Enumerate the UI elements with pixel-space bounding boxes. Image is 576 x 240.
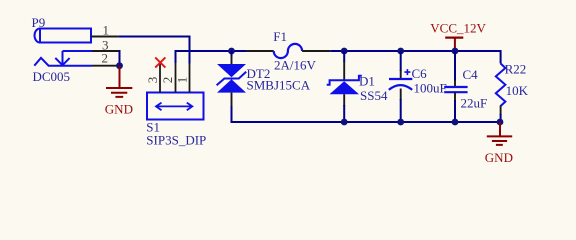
power port VCC_12V stem — [454, 38, 456, 49]
svg-text:100uF: 100uF — [414, 81, 447, 96]
capacitor C4 plate 1 — [444, 86, 467, 88]
fuse F1 left pin — [246, 50, 274, 52]
fuse F1 glyph — [274, 44, 302, 58]
svg-text:22uF: 22uF — [461, 96, 488, 111]
wire DT2 bottom to bottom rail — [232, 106, 501, 122]
ground GND2 bars — [487, 136, 512, 145]
svg-text:2: 2 — [102, 51, 109, 66]
wire C6 bottom — [400, 99, 402, 122]
diode D1 anode pin — [343, 94, 345, 106]
power port VCC_12V bar — [445, 36, 463, 38]
P9 pin 2 — [92, 65, 117, 67]
TVS diode DT2 top pin — [231, 56, 233, 65]
switch S1 body — [147, 93, 204, 120]
wire C4 top — [454, 51, 456, 81]
svg-text:1: 1 — [103, 22, 110, 37]
S1 pin 3 — [159, 64, 161, 93]
svg-text:D1: D1 — [359, 74, 375, 89]
wire D1 top — [343, 51, 345, 62]
P9 pin 3 — [92, 50, 119, 52]
svg-text:F1: F1 — [273, 29, 287, 44]
svg-text:GND: GND — [485, 150, 513, 165]
junction node jack pin2/pin3 — [116, 62, 123, 69]
fuse F1 right pin — [302, 50, 330, 52]
diode D1 schottky bar — [327, 76, 362, 85]
capacitor C6 curved plate — [389, 85, 412, 90]
connector P9 barrel body — [35, 29, 92, 43]
svg-text:R22: R22 — [505, 62, 527, 77]
connector P9 sleeve contact (pin 2 internal) — [34, 58, 92, 66]
no-ERC marker X on S1 pin 3 — [155, 57, 165, 67]
svg-text:10K: 10K — [506, 83, 529, 98]
wire C6 top — [400, 51, 402, 71]
diode D1 triangle — [330, 81, 360, 94]
svg-text:2: 2 — [160, 77, 175, 84]
diode D1 cathode pin — [343, 61, 345, 80]
svg-text:DC005: DC005 — [33, 69, 71, 84]
svg-text:C4: C4 — [463, 67, 479, 82]
TVS diode DT2 lower triangle — [217, 79, 246, 92]
capacitor C4 bottom pin — [454, 92, 456, 101]
svg-text:SMBJ15CA: SMBJ15CA — [247, 77, 311, 92]
ground GND2 stem — [499, 122, 501, 136]
wire S1 pin2 up to main rail — [176, 51, 247, 63]
svg-text:3: 3 — [145, 77, 160, 84]
junction node bottom rail / GND — [497, 119, 504, 126]
resistor R22 bottom pin — [500, 106, 502, 116]
junction node C4 bottom — [452, 119, 459, 126]
wire main rail right of fuse — [330, 51, 500, 64]
svg-text:GND: GND — [105, 102, 133, 117]
wire jack pin1 to S1 pin1 — [119, 37, 190, 64]
TVS diode DT2 breakdown bar — [217, 72, 247, 86]
capacitor C4 plate 2 — [444, 91, 467, 93]
svg-text:SIP3S_DIP: SIP3S_DIP — [146, 133, 206, 148]
svg-text:C6: C6 — [412, 66, 428, 81]
capacitor C6 top pin — [400, 70, 402, 79]
wire C4 bottom — [454, 100, 456, 122]
svg-text:VCC_12V: VCC_12V — [430, 20, 486, 35]
junction node DT2 top — [228, 48, 235, 55]
TVS diode DT2 upper triangle — [217, 64, 246, 77]
svg-text:SS54: SS54 — [360, 88, 388, 103]
connector P9 switch contact (pin 3 internal) — [55, 51, 92, 65]
svg-text:1: 1 — [175, 77, 190, 84]
wire jack pin3 down to pin2 node — [118, 51, 121, 66]
capacitor C4 top pin — [454, 80, 456, 87]
wire VCC stem to rail — [454, 48, 456, 51]
junction node D1 top — [341, 48, 348, 55]
capacitor C6 bottom pin — [400, 89, 402, 101]
resistor R22 zigzag — [496, 64, 506, 107]
TVS diode DT2 bottom pin — [231, 93, 233, 107]
S1 pin 2 — [175, 63, 177, 93]
wire D1 bottom — [343, 105, 345, 122]
capacitor C6 positive plate — [389, 78, 412, 80]
P9 pin 1 — [91, 36, 119, 38]
wire R22 bottom — [500, 114, 502, 122]
junction node VCC/C4 top — [452, 48, 459, 55]
S1 pin 1 — [189, 64, 191, 93]
svg-text:2A/16V: 2A/16V — [274, 58, 317, 73]
wire DT2 top — [231, 51, 233, 57]
switch S1 double arrow — [156, 103, 192, 111]
C6 polarity plus sign — [404, 69, 410, 75]
ground GND1 bars — [106, 88, 132, 97]
junction node C6 bottom — [397, 119, 404, 126]
ground GND1 stem — [119, 66, 121, 87]
junction node C6 top — [397, 48, 404, 55]
junction node D1 bottom — [341, 119, 348, 126]
